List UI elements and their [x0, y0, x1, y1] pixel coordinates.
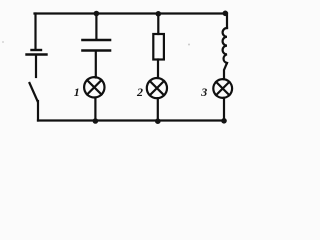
svg-text:1: 1	[74, 85, 80, 99]
wire left vertical upper (to battery)	[34, 14, 36, 50]
wire lamp 2 to bottom	[157, 98, 159, 120]
lamp 3 circle	[213, 79, 232, 98]
junction dot node bottom lamp 3	[221, 118, 227, 124]
lamp 3 cross	[216, 82, 229, 95]
wire lamp 1 to bottom	[94, 98, 96, 121]
switch blade (open)	[30, 83, 38, 101]
wire switch lower stub	[37, 101, 39, 121]
junction dot node bottom lamp 1	[93, 118, 99, 124]
inductor coil L	[223, 28, 227, 63]
lamp 2 cross	[150, 81, 164, 95]
junction dot node bottom lamp 2	[155, 118, 161, 124]
capacitor plate top	[83, 39, 111, 42]
lamp 2 circle	[147, 78, 167, 98]
wire resistor to lamp 2	[157, 60, 159, 79]
capacitor plate bottom	[83, 49, 111, 52]
wire capacitor to lamp 1	[95, 52, 97, 78]
junction dot node top capacitor branch	[94, 11, 100, 17]
wire battery to switch	[35, 56, 37, 78]
wire resistor branch upper	[157, 14, 159, 35]
wire capacitor branch upper	[95, 14, 97, 40]
wire coil to lamp 3	[224, 63, 227, 79]
wire top horizontal	[35, 12, 227, 14]
svg-text:2: 2	[136, 85, 143, 99]
lamp 1 circle	[84, 77, 104, 97]
junction dot node top right corner	[223, 11, 229, 17]
lamp 1 cross	[87, 80, 101, 94]
junction dot node top resistor branch	[156, 11, 162, 17]
wire lamp 3 to bottom	[223, 98, 225, 121]
wire right vertical upper	[226, 14, 228, 29]
svg-text:3: 3	[200, 85, 207, 99]
battery cell short plate	[32, 49, 42, 51]
battery cell long plate	[27, 53, 47, 55]
resistor R rectangle	[153, 34, 164, 60]
wire bottom horizontal	[38, 119, 224, 121]
